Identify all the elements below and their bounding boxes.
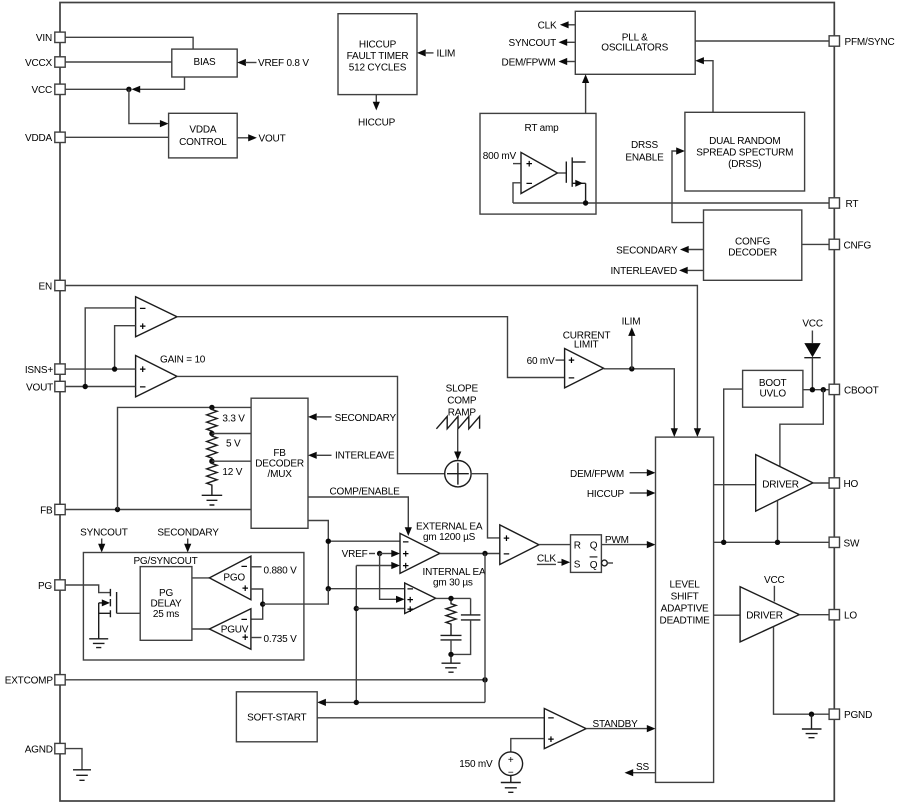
- comparator CURRENT LIMIT: [565, 349, 604, 388]
- label VCC above diode: [802, 319, 823, 330]
- svg-text:/MUX: /MUX: [267, 469, 292, 480]
- wire STANDBY output to LEVEL SHIFT with arrow: [586, 719, 655, 732]
- pin HO: [829, 478, 858, 490]
- wire ISNS+ pin to gain amp: [65, 366, 135, 371]
- wire VCC node to VDDA CONTROL with arrow: [129, 89, 169, 127]
- svg-text:+: +: [403, 561, 409, 573]
- wire 150mV source to STANDBY plus: [511, 739, 545, 752]
- wire VCC into low driver: [773, 586, 775, 602]
- svg-text:FAULT TIMER: FAULT TIMER: [347, 51, 409, 62]
- svg-text:+: +: [140, 364, 146, 376]
- svg-text:Q: Q: [590, 540, 598, 551]
- svg-text:+: +: [526, 159, 532, 171]
- label HICCUP with arrow into LEVEL SHIFT: [587, 489, 656, 500]
- comparator STANDBY: [544, 709, 586, 749]
- block SOFT-START: [236, 692, 317, 742]
- svg-text:BOOT: BOOT: [759, 378, 787, 389]
- svg-text:INTERLEAVED: INTERLEAVED: [610, 266, 677, 277]
- node current limit output junction: [629, 366, 634, 371]
- wire CONFG DECODER to DRSS ENABLE with arrow: [672, 147, 704, 222]
- svg-text:+: +: [548, 734, 554, 746]
- pin LO: [829, 610, 857, 622]
- wire BOOT UVLO to CBOOT pin: [803, 387, 829, 392]
- svg-text:−: −: [241, 614, 247, 626]
- svg-text:S: S: [574, 559, 581, 570]
- wire LEVEL SHIFT to high driver: [714, 484, 756, 486]
- svg-text:VDDA: VDDA: [25, 133, 53, 144]
- label VREF with arrows to EA plus inputs: [342, 549, 405, 603]
- svg-text:VCC: VCC: [802, 319, 823, 330]
- wire EXTCOMP node up to EA output: [484, 554, 486, 703]
- wire gain amp output to summing junction: [177, 376, 445, 473]
- driver low side: [740, 587, 799, 642]
- wire DRSS to PLL with arrow: [695, 57, 713, 112]
- pin VCCX: [25, 57, 65, 69]
- wire latch Q PWM to LEVEL SHIFT with arrow: [601, 535, 655, 548]
- wire ILIM arrow up: [622, 316, 641, 368]
- svg-text:+: +: [503, 533, 509, 545]
- wire COMP/ENABLE from FB DECODER to EA with arrow: [308, 497, 412, 536]
- pin PG: [38, 580, 65, 592]
- capacitor high frequency parallel: [451, 598, 480, 654]
- wire PGO plus to FB sense net: [251, 589, 328, 620]
- wire PGO to PG DELAY: [192, 577, 210, 579]
- pin CBOOT: [829, 384, 879, 396]
- svg-text:BIAS: BIAS: [194, 57, 217, 68]
- wire upper amp output to current limit minus: [177, 317, 565, 378]
- wire upper amp plus input to ISNS node: [115, 326, 136, 369]
- comparator PGO: [209, 556, 251, 600]
- label 12 V: [222, 467, 242, 478]
- sawtooth ramp symbol: [436, 416, 479, 428]
- pin CNFG: [829, 239, 871, 251]
- block PLL and OSCILLATORS: [575, 11, 695, 74]
- wire FB DECODER to error amp minus inputs: [308, 521, 328, 589]
- wire PWM comparator output to latch R: [539, 544, 571, 546]
- svg-text:−: −: [503, 548, 509, 560]
- wire VDDA pin to VDDA CONTROL: [65, 136, 168, 138]
- svg-text:INTERNAL EA: INTERNAL EA: [423, 567, 487, 578]
- svg-text:HO: HO: [844, 479, 859, 490]
- svg-text:SECONDARY: SECONDARY: [616, 245, 678, 256]
- node RT junction: [583, 200, 588, 205]
- wire RT net to RT pin: [513, 202, 829, 204]
- svg-text:EXTERNAL EA: EXTERNAL EA: [416, 522, 483, 533]
- wire op-amp output to MOSFET gate: [558, 172, 567, 174]
- wire EXTCOMP pin to EA output node: [65, 677, 488, 682]
- wire upper amp minus input to VOUT node: [85, 308, 135, 387]
- wire low driver to LO pin: [799, 614, 829, 616]
- label DRSS ENABLE: [625, 140, 664, 163]
- label INTERLEAVE with arrow into FB DECODER: [308, 451, 395, 462]
- svg-text:+: +: [403, 549, 409, 561]
- wire high driver bottom to SW net: [777, 501, 779, 543]
- pin EXTCOMP: [5, 675, 65, 687]
- svg-text:VOUT: VOUT: [26, 382, 53, 393]
- wire PLL to PFM/SYNC pin: [695, 40, 829, 42]
- svg-text:12 V: 12 V: [222, 467, 242, 478]
- svg-text:VIN: VIN: [36, 33, 52, 44]
- svg-text:0.880 V: 0.880 V: [264, 566, 298, 577]
- svg-text:512 CYCLES: 512 CYCLES: [349, 63, 407, 74]
- svg-text:ILIM: ILIM: [437, 48, 456, 59]
- label 0.735 V with stub to PGUV plus: [251, 634, 297, 645]
- diode VCC to CBOOT: [804, 331, 820, 390]
- node divider top: [209, 405, 214, 410]
- block CONFG DECODER: [704, 210, 802, 280]
- pin EN: [39, 280, 66, 292]
- pin VOUT: [26, 381, 65, 393]
- wire BOOT UVLO left to SW net: [724, 389, 743, 542]
- svg-text:INTERLEAVE: INTERLEAVE: [335, 451, 395, 462]
- svg-text:ISNS+: ISNS+: [25, 365, 54, 376]
- svg-text:CONFG: CONFG: [735, 237, 771, 248]
- svg-text:SECONDARY: SECONDARY: [157, 528, 219, 539]
- svg-text:CLK: CLK: [537, 554, 556, 565]
- wire CBOOT branch to high driver top: [780, 390, 823, 467]
- wire VOUT pin to gain amp: [65, 384, 135, 389]
- svg-text:STANDBY: STANDBY: [593, 719, 639, 730]
- block BIAS: [172, 49, 237, 77]
- wire tap 12V to FB DECODER: [212, 460, 251, 462]
- svg-text:VREF: VREF: [342, 549, 368, 560]
- wire op-amp feedback to source node: [513, 183, 521, 203]
- wire FB node up to divider top: [118, 407, 252, 509]
- label 3.3 V: [222, 414, 245, 425]
- wire FB node to internal EA minus: [326, 586, 405, 591]
- latch SR PWM: [571, 535, 614, 573]
- svg-text:60 mV: 60 mV: [527, 356, 555, 367]
- label 0.880 V with stub to PGO minus: [251, 566, 297, 577]
- block LEVEL SHIFT ADAPTIVE DEADTIME: [656, 437, 714, 782]
- svg-text:PFM/SYNC: PFM/SYNC: [845, 37, 895, 48]
- wire SOFT-START to STANDBY minus: [317, 717, 544, 719]
- wire tap 3.3V to FB DECODER: [212, 433, 251, 435]
- wire EN to LEVEL SHIFT with arrow: [65, 286, 701, 438]
- svg-text:CNFG: CNFG: [844, 240, 872, 251]
- transistor PG MOSFET: [99, 589, 117, 617]
- svg-text:−: −: [241, 561, 247, 573]
- svg-text:DRIVER: DRIVER: [746, 611, 783, 622]
- svg-text:RT: RT: [846, 199, 859, 210]
- label COMP/ENABLE: [330, 487, 401, 498]
- ground AGND: [73, 770, 91, 781]
- ground PGND: [802, 714, 822, 738]
- pin ISNS+: [25, 364, 65, 376]
- capacitor compensation series: [441, 635, 462, 654]
- op-amp RT amp: [521, 152, 558, 193]
- svg-text:PG: PG: [38, 581, 52, 592]
- svg-text:25 ms: 25 ms: [153, 609, 179, 620]
- node VCC junction: [126, 87, 131, 92]
- svg-text:gm 30 µs: gm 30 µs: [433, 578, 473, 589]
- wire LEVEL SHIFT to low driver: [714, 614, 741, 616]
- resistor divider 12V: [207, 461, 217, 495]
- svg-text:−: −: [548, 713, 554, 725]
- pin VIN: [36, 32, 65, 44]
- svg-text:+: +: [407, 604, 413, 616]
- svg-text:SECONDARY: SECONDARY: [335, 413, 397, 424]
- svg-text:SOFT-START: SOFT-START: [247, 713, 306, 724]
- svg-text:DEADTIME: DEADTIME: [660, 615, 711, 626]
- ground compensation network: [442, 654, 461, 672]
- wire VCCX to BIAS left: [65, 61, 172, 63]
- label 60 mV with stub to current limit plus: [527, 356, 565, 367]
- resistor divider 3.3V: [207, 407, 217, 433]
- label EXTERNAL EA gm 1200 uS: [416, 522, 483, 544]
- svg-text:+: +: [242, 583, 248, 595]
- summing junction: [445, 461, 471, 487]
- svg-text:gm 1200 µS: gm 1200 µS: [423, 532, 476, 543]
- block HICCUP FAULT TIMER 512 CYCLES: [338, 14, 417, 95]
- wire SYNCOUT output arrow: [509, 38, 576, 49]
- svg-text:DRIVER: DRIVER: [762, 480, 799, 491]
- svg-text:LEVEL: LEVEL: [670, 579, 701, 590]
- svg-text:PG/SYNCOUT: PG/SYNCOUT: [133, 556, 197, 567]
- op-amp INTERNAL EA: [405, 583, 436, 616]
- block FB DECODER /MUX: [251, 398, 308, 528]
- wire external EA output to PWM comparator minus: [440, 551, 500, 556]
- svg-text:FB: FB: [40, 505, 53, 516]
- svg-text:AGND: AGND: [25, 744, 53, 755]
- label SYNCOUT with arrow into PG/SYNCOUT: [80, 528, 128, 553]
- resistor compensation: [446, 598, 456, 635]
- svg-text:COMP: COMP: [447, 396, 477, 407]
- svg-text:OSCILLATORS: OSCILLATORS: [601, 43, 668, 54]
- comparator upper sense amp: [136, 297, 177, 337]
- label 5 V: [226, 439, 241, 450]
- svg-text:PG: PG: [159, 588, 173, 599]
- svg-text:RT amp: RT amp: [524, 123, 559, 134]
- svg-text:DRSS: DRSS: [631, 140, 659, 151]
- svg-text:(DRSS): (DRSS): [728, 159, 761, 170]
- svg-text:DECODER: DECODER: [255, 459, 304, 470]
- svg-text:HICCUP: HICCUP: [359, 40, 397, 51]
- pin AGND: [25, 743, 65, 755]
- svg-text:DECODER: DECODER: [728, 248, 777, 259]
- svg-text:PGO: PGO: [223, 572, 245, 583]
- ground 150 mV source: [501, 776, 521, 793]
- op-amp EXTERNAL EA: [400, 533, 440, 573]
- wire summing junction to PWM comparator plus: [471, 474, 500, 538]
- svg-text:VREF 0.8 V: VREF 0.8 V: [258, 58, 309, 69]
- svg-text:−: −: [568, 373, 574, 385]
- svg-text:VOUT: VOUT: [259, 134, 286, 145]
- wire INTERLEAVED output arrow from CONFG DECODER: [610, 266, 703, 277]
- svg-text:SYNCOUT: SYNCOUT: [80, 528, 128, 539]
- pin PGND: [829, 709, 872, 721]
- wire HICCUP output arrow down: [373, 95, 380, 111]
- svg-text:HICCUP: HICCUP: [358, 118, 396, 129]
- svg-text:LO: LO: [844, 611, 857, 622]
- svg-text:LIMIT: LIMIT: [574, 339, 599, 350]
- block PG DELAY 25 ms: [140, 567, 192, 641]
- wire VDDA CONTROL to VOUT arrow: [237, 134, 285, 145]
- svg-text:EXTCOMP: EXTCOMP: [5, 676, 54, 687]
- block PG/SYNCOUT: [83, 553, 304, 661]
- svg-text:DEM/FPWM: DEM/FPWM: [570, 469, 624, 480]
- block VDDA CONTROL: [169, 113, 238, 158]
- ground divider: [202, 495, 223, 505]
- svg-text:R: R: [574, 540, 581, 551]
- svg-text:SPREAD SPECTURM: SPREAD SPECTURM: [696, 148, 793, 159]
- driver high side: [756, 455, 813, 512]
- wire current limit output to LEVEL SHIFT with arrow: [604, 369, 678, 437]
- svg-text:+: +: [508, 755, 514, 766]
- wire CONFG DECODER to CNFG pin: [802, 243, 829, 245]
- svg-text:+: +: [242, 632, 248, 644]
- svg-text:RAMP: RAMP: [448, 408, 477, 419]
- label CLK with arrow into latch S: [537, 554, 570, 566]
- svg-text:DUAL RANDOM: DUAL RANDOM: [709, 136, 780, 147]
- pin FB: [40, 504, 65, 516]
- block BOOT UVLO: [743, 370, 803, 407]
- ground PG MOSFET: [89, 613, 108, 647]
- node divider tap 12V: [209, 459, 214, 464]
- wire FB pin to FB DECODER: [65, 507, 251, 512]
- resistor divider 5V: [207, 434, 217, 462]
- svg-text:VCCX: VCCX: [25, 58, 53, 69]
- block RT amp box: [480, 113, 596, 214]
- svg-text:FB: FB: [273, 448, 286, 459]
- svg-text:VDDA: VDDA: [189, 125, 217, 136]
- amplifier GAIN 10: [136, 356, 177, 397]
- wire ramp to summing junction arrow: [454, 429, 461, 460]
- svg-text:SYNCOUT: SYNCOUT: [509, 38, 557, 49]
- pin SW: [829, 537, 860, 549]
- label DEM/FPWM with arrow into LEVEL SHIFT: [570, 469, 655, 480]
- svg-text:+: +: [568, 355, 574, 367]
- wire low driver bottom to PGND: [774, 627, 830, 717]
- label VREF 0.8 V with arrow into BIAS: [237, 58, 309, 69]
- source 150 mV: [499, 752, 523, 778]
- svg-text:ENABLE: ENABLE: [625, 152, 664, 163]
- label 800 mV with stub to op-amp plus input: [483, 151, 521, 164]
- svg-text:SLOPE: SLOPE: [446, 383, 479, 394]
- wire SW net LEVEL SHIFT to SW pin: [714, 540, 829, 545]
- wire PG MOSFET gate to PG DELAY: [117, 612, 141, 614]
- wire FB node to external EA minus: [326, 539, 400, 544]
- label 150 mV: [459, 759, 493, 770]
- svg-text:CBOOT: CBOOT: [844, 385, 879, 396]
- label HICCUP: [358, 118, 396, 129]
- svg-text:PWM: PWM: [605, 535, 629, 546]
- wire soft-start net vertical to EA plus inputs: [354, 562, 405, 703]
- svg-text:−: −: [140, 382, 146, 394]
- label SECONDARY with arrow into FB DECODER: [308, 413, 396, 424]
- svg-text:800 mV: 800 mV: [483, 151, 517, 162]
- label CURRENT LIMIT: [563, 330, 611, 350]
- svg-text:PGND: PGND: [844, 710, 872, 721]
- svg-text:VCC: VCC: [764, 575, 785, 586]
- wire BIAS output to VCC node with arrow: [132, 77, 185, 93]
- node compensation bottom: [448, 652, 453, 657]
- node divider tap 3.3V: [209, 431, 214, 436]
- svg-text:VCC: VCC: [31, 85, 52, 96]
- label INTERNAL EA gm 30 us: [423, 567, 487, 589]
- wire PGUV to PG DELAY: [192, 628, 210, 630]
- svg-text:DELAY: DELAY: [150, 599, 182, 610]
- label SECONDARY with arrow into PG/SYNCOUT: [157, 528, 219, 553]
- svg-text:CONTROL: CONTROL: [179, 137, 227, 148]
- block DUAL RANDOM SPREAD SPECTRUM DRSS: [685, 112, 805, 191]
- wire DEM/FPWM output arrow: [502, 57, 576, 68]
- svg-text:HICCUP: HICCUP: [587, 489, 625, 500]
- pin VDDA: [25, 132, 65, 144]
- svg-text:−: −: [526, 178, 532, 190]
- svg-text:SS: SS: [636, 762, 649, 773]
- svg-text:−: −: [140, 303, 146, 315]
- label VCC above low driver: [764, 575, 785, 586]
- wire CLK output arrow: [538, 20, 576, 31]
- pin PFM/SYNC: [829, 36, 894, 48]
- wire SS output arrow: [625, 762, 656, 776]
- pin RT: [829, 198, 858, 210]
- svg-text:SHIFT: SHIFT: [671, 591, 699, 602]
- wire soft-start feed with arrow into SOFT-START: [317, 699, 485, 706]
- svg-text:ADAPTIVE: ADAPTIVE: [661, 603, 709, 614]
- svg-text:−: −: [403, 536, 409, 548]
- wire VIN to BIAS top: [65, 37, 193, 49]
- pin VCC: [31, 84, 65, 96]
- svg-text:SW: SW: [844, 538, 860, 549]
- svg-text:0.735 V: 0.735 V: [264, 634, 298, 645]
- svg-text:+: +: [140, 321, 146, 333]
- svg-text:EN: EN: [39, 281, 53, 292]
- svg-text:CLK: CLK: [538, 20, 557, 31]
- label SLOPE COMP RAMP: [446, 383, 479, 418]
- wire internal EA output to compensation network: [436, 596, 471, 601]
- svg-text:3.3 V: 3.3 V: [222, 414, 245, 425]
- label ILIM with arrow into HICCUP FAULT TIMER: [417, 48, 455, 59]
- wire RT amp drain up to PLL with arrow: [582, 74, 589, 162]
- transistor RT MOSFET: [566, 157, 585, 203]
- svg-text:COMP/ENABLE: COMP/ENABLE: [330, 487, 401, 498]
- wire PG pin to MOSFET drain: [65, 585, 110, 593]
- svg-text:UVLO: UVLO: [759, 389, 786, 400]
- label GAIN = 10: [160, 355, 206, 366]
- svg-text:Q: Q: [590, 560, 598, 571]
- wire VCC to junction: [65, 88, 129, 90]
- svg-text:GAIN = 10: GAIN = 10: [160, 355, 206, 366]
- svg-text:5 V: 5 V: [226, 439, 241, 450]
- wire AGND pin to ground: [65, 749, 82, 770]
- svg-text:150 mV: 150 mV: [459, 759, 493, 770]
- wire high driver to HO pin: [813, 482, 829, 484]
- comparator PWM: [500, 525, 539, 565]
- wire SECONDARY output arrow from CONFG DECODER: [616, 245, 703, 256]
- svg-text:DEM/FPWM: DEM/FPWM: [502, 57, 556, 68]
- comparator PGUV: [209, 609, 251, 650]
- svg-text:ILIM: ILIM: [622, 316, 641, 327]
